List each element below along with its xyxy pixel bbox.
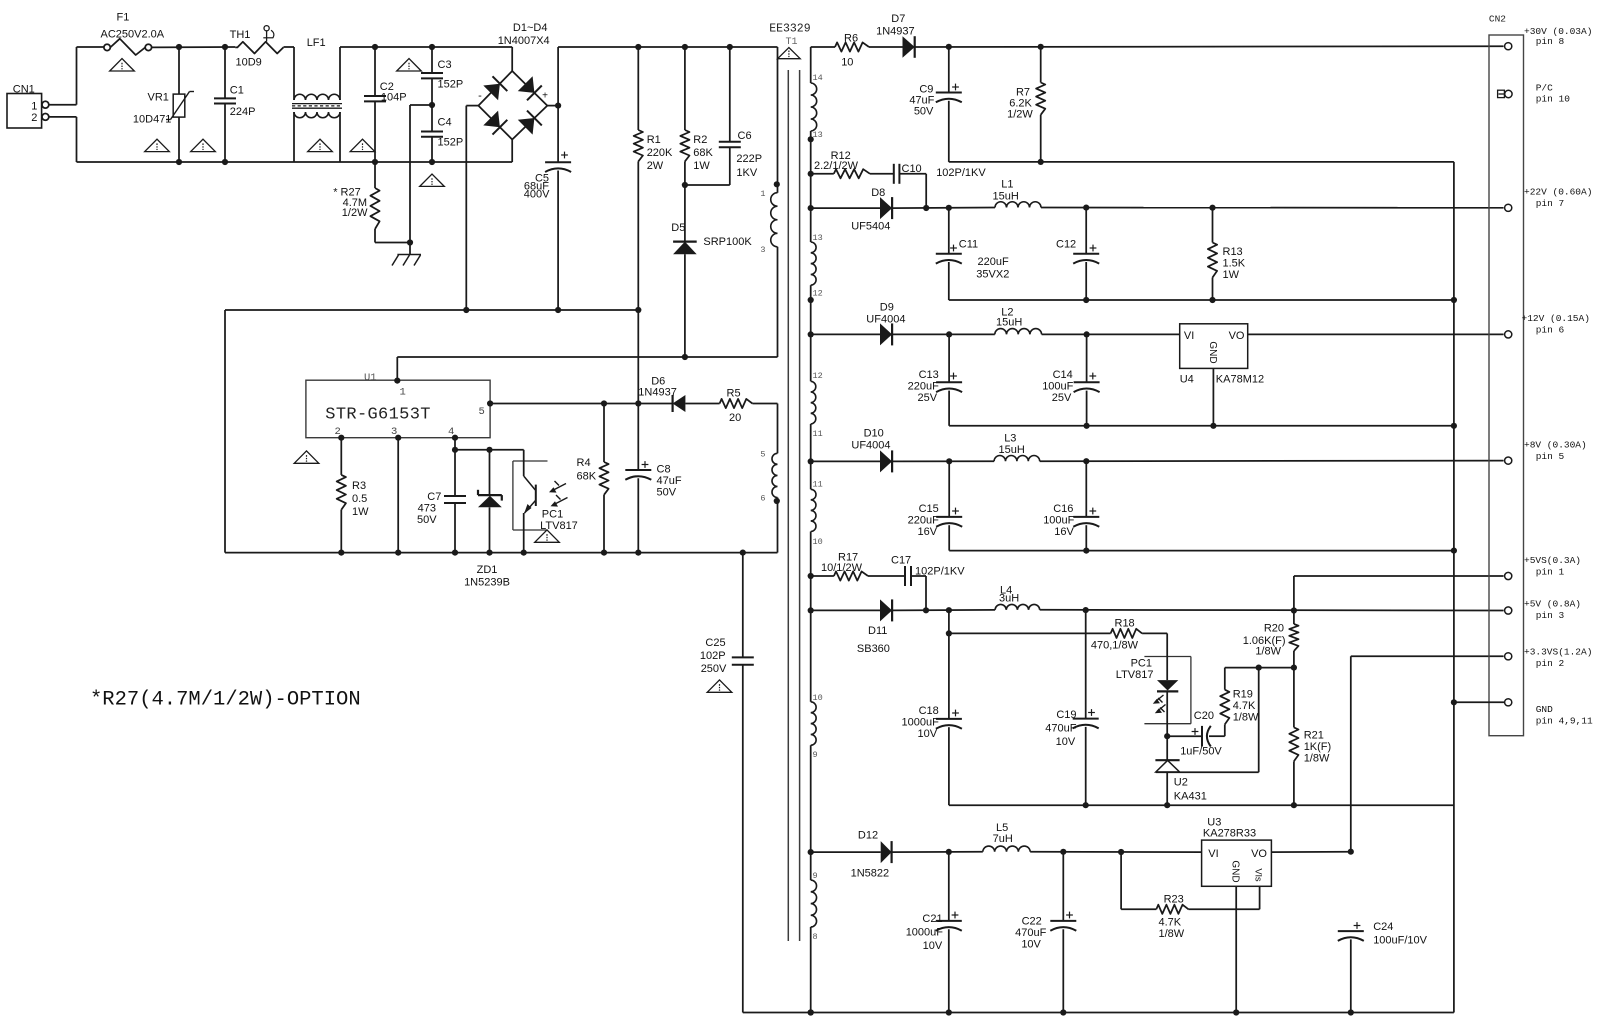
resistor R20: [1243, 611, 1299, 668]
svg-text:+8V (0.30A): +8V (0.30A): [1524, 440, 1587, 451]
svg-text:220uF: 220uF: [908, 515, 939, 527]
svg-text:STR-G6153T: STR-G6153T: [325, 406, 431, 425]
warning triangle below F1: [110, 59, 135, 71]
svg-text:6: 6: [760, 494, 765, 504]
svg-text:CN1: CN1: [13, 83, 35, 95]
inductor L4: [995, 585, 1504, 611]
svg-text:1.5K: 1.5K: [1223, 258, 1246, 270]
wire AC bottom rail: [77, 161, 513, 163]
node U1 pin3: [395, 435, 401, 441]
svg-text:TH1: TH1: [230, 29, 251, 41]
resistor R1: [634, 47, 673, 404]
thermistor TH1: [230, 26, 284, 69]
capacitor C7: [417, 450, 466, 553]
svg-text:R7: R7: [1016, 86, 1030, 98]
svg-text:pin 3: pin 3: [1536, 610, 1565, 621]
capacitor C18: [901, 610, 961, 805]
node C19 bottom: [1083, 802, 1089, 808]
wire pin14 to R6: [811, 46, 835, 48]
capacitor C3: [421, 47, 463, 105]
svg-text:1/2W: 1/2W: [342, 207, 368, 219]
svg-text:10V: 10V: [1056, 736, 1076, 748]
node C10 D8 junction: [923, 205, 929, 211]
resistor R27 optional: [333, 162, 410, 243]
node C1 bottom: [222, 159, 228, 165]
svg-text:C20: C20: [1194, 710, 1214, 722]
diode D5: [671, 185, 752, 357]
warning triangle left of C3: [397, 59, 422, 71]
CN2 pin 7 +22V: [1505, 187, 1593, 212]
inductor L2: [995, 307, 1180, 335]
wire U1 pin5 row: [490, 403, 672, 405]
svg-text:4.7K: 4.7K: [1159, 917, 1182, 929]
node T1 pin1: [774, 181, 780, 187]
inductor L1: [993, 179, 1504, 208]
resistor R13: [1208, 208, 1246, 300]
svg-text:AC250V2.0A: AC250V2.0A: [101, 29, 165, 41]
capacitor C16: [1043, 461, 1099, 550]
svg-text:3uH: 3uH: [999, 593, 1019, 605]
node T1 pin13: [808, 136, 814, 142]
diode D10: [811, 428, 994, 473]
resistor R7: [1007, 47, 1045, 162]
svg-text:1N4007X4: 1N4007X4: [498, 35, 550, 47]
node C17 D11 junction: [923, 607, 929, 613]
svg-text:T1: T1: [786, 37, 798, 48]
node R3 bottom: [338, 550, 344, 556]
svg-text:102P/1KV: 102P/1KV: [936, 167, 986, 179]
svg-text:PC1: PC1: [542, 509, 563, 521]
node bus +22V gnd: [1451, 297, 1457, 303]
svg-text:1N5239B: 1N5239B: [464, 577, 510, 589]
svg-text:1W: 1W: [352, 506, 369, 518]
wire CN1 pin2 to AC bottom rail: [49, 117, 77, 162]
svg-text:C18: C18: [919, 705, 939, 717]
node C8 bottom: [635, 550, 641, 556]
wire +3.3VS sense from U3 output: [1351, 656, 1504, 851]
svg-text:VI: VI: [1184, 330, 1194, 342]
svg-text:2.2/1/2W: 2.2/1/2W: [814, 160, 859, 172]
node C13 top: [946, 331, 952, 337]
svg-text:C16: C16: [1053, 503, 1073, 515]
CN2 pin 6 +12V: [1505, 313, 1590, 338]
wire REF down to U2: [1156, 668, 1259, 773]
line filter LF1: [292, 37, 342, 162]
diode D9: [811, 302, 995, 346]
node R20 top: [1291, 607, 1297, 613]
capacitor C5: [524, 106, 571, 310]
wire U1 pin4 down: [454, 438, 456, 450]
varistor VR1: [133, 47, 194, 162]
svg-text:C15: C15: [919, 503, 939, 515]
svg-text:KA431: KA431: [1174, 791, 1207, 803]
svg-text:47uF: 47uF: [657, 475, 682, 487]
svg-text:C3: C3: [438, 59, 452, 71]
capacitor C14: [1042, 334, 1099, 425]
svg-text:C17: C17: [891, 555, 911, 567]
resistor R17: [811, 552, 905, 581]
svg-text:C13: C13: [919, 369, 939, 381]
wire bridge negative: [466, 106, 478, 310]
node C19 top: [1083, 607, 1089, 613]
node C21 bottom: [946, 1009, 952, 1015]
wire +8V ground rail: [949, 550, 1454, 552]
node C4 bottom: [429, 159, 435, 165]
svg-text:VO: VO: [1251, 848, 1267, 860]
capacitor C25: [700, 553, 754, 1013]
wire +5VS sense: [1294, 576, 1504, 611]
wire +12V ground rail: [949, 425, 1454, 427]
svg-text:R23: R23: [1164, 894, 1184, 906]
svg-text:1: 1: [400, 387, 406, 399]
svg-text:50V: 50V: [914, 106, 934, 118]
CN2 pin 5 +8V: [1505, 440, 1587, 465]
svg-text:16V: 16V: [1054, 526, 1074, 538]
svg-text:10/1/2W: 10/1/2W: [821, 562, 863, 574]
svg-text:C24: C24: [1373, 921, 1393, 933]
wire C3C4 midpoint to chassis ground: [410, 105, 432, 243]
svg-text:5: 5: [479, 406, 485, 418]
warning triangle T1: [778, 48, 801, 59]
svg-text:R6: R6: [844, 33, 858, 45]
svg-text:12: 12: [813, 371, 823, 381]
node C5 bottom on rail: [555, 307, 561, 313]
node bus +12V gnd: [1451, 423, 1457, 429]
node U2 anode gnd: [1164, 802, 1170, 808]
wire bridge positive to DC rail: [547, 47, 777, 106]
wire U1 pin3 to control ground: [397, 438, 399, 553]
node C6 top: [727, 44, 733, 50]
svg-text:35VX2: 35VX2: [976, 269, 1009, 281]
svg-text:pin 1: pin 1: [1536, 567, 1565, 578]
node PC1 cathode C20 junction: [1164, 733, 1170, 739]
capacitor C10: [894, 163, 987, 208]
svg-text:104P: 104P: [381, 91, 407, 103]
transformer aux winding pins 5-6: [760, 450, 777, 504]
node R21 bottom: [1291, 802, 1297, 808]
node R20 bottom: [1291, 665, 1297, 671]
svg-text:8: 8: [813, 932, 818, 942]
warning triangle below PC1: [535, 530, 560, 542]
svg-text:R3: R3: [352, 480, 366, 492]
svg-text:C7: C7: [427, 491, 441, 503]
svg-text:15uH: 15uH: [999, 444, 1025, 456]
svg-text:1N5822: 1N5822: [851, 868, 890, 880]
node T1 pin8 on rail: [808, 1009, 814, 1015]
resistor R12: [811, 150, 894, 178]
transformer secondary winding pins 10-9: [811, 693, 823, 880]
warning triangle below C2 left: [350, 139, 375, 151]
resistor R6: [835, 33, 903, 69]
svg-text:11: 11: [813, 480, 823, 490]
wire pin4 node to ZD1 and PC1: [455, 449, 524, 451]
bridge rectifier D1-D4: [478, 22, 550, 162]
CN2 pin 3 +5V: [1505, 599, 1581, 622]
svg-text:D7: D7: [891, 13, 905, 25]
node R17 tap: [808, 573, 814, 579]
node C7 bottom: [452, 550, 458, 556]
svg-text:10V: 10V: [1021, 939, 1041, 951]
diode D7: [876, 13, 1504, 58]
node U1 pin5: [487, 400, 493, 406]
transformer secondary winding pins 14-13: [811, 47, 823, 140]
node pin3 ground: [395, 550, 401, 556]
warning triangle below VR1: [145, 139, 170, 151]
svg-text:1W: 1W: [693, 160, 710, 172]
regulator U3 KA278R33: [1202, 816, 1351, 1012]
svg-text:1K(F): 1K(F): [1304, 741, 1332, 753]
svg-text:473: 473: [418, 503, 436, 515]
node bus +8V gnd: [1451, 548, 1457, 554]
CN2 pin 1 +5VS: [1505, 555, 1581, 580]
resistor R19: [1220, 668, 1294, 737]
wire R7 C9 ground row to bus: [949, 162, 1454, 1013]
node R1 top: [635, 44, 641, 50]
svg-text:220K: 220K: [647, 147, 673, 159]
wire pin12 node down: [810, 300, 812, 381]
node bridge negative on rail: [463, 307, 469, 313]
svg-text:10V: 10V: [923, 940, 943, 952]
warning triangle below C1 left: [191, 139, 216, 151]
node VR1 bottom: [176, 159, 182, 165]
wire primary negative rail: [225, 310, 638, 553]
node R2 top: [682, 44, 688, 50]
svg-text:1KV: 1KV: [736, 167, 757, 179]
node R1 bottom on rail: [635, 307, 641, 313]
svg-text:16V: 16V: [918, 526, 938, 538]
node R4 top: [601, 400, 607, 406]
svg-text:15uH: 15uH: [996, 317, 1022, 329]
svg-text:470uF: 470uF: [1015, 927, 1046, 939]
node C14 top: [1084, 331, 1090, 337]
svg-text:50V: 50V: [417, 514, 437, 526]
svg-text:ZD1: ZD1: [477, 564, 498, 576]
svg-text:15uH: 15uH: [993, 191, 1019, 203]
svg-text:R18: R18: [1115, 618, 1135, 630]
svg-text:VI: VI: [1208, 848, 1218, 860]
svg-text:7uH: 7uH: [993, 833, 1013, 845]
svg-text:LTV817: LTV817: [1116, 669, 1154, 681]
svg-text:2W: 2W: [647, 160, 664, 172]
svg-text:R21: R21: [1304, 730, 1324, 742]
node C24 bottom: [1348, 1009, 1354, 1015]
inductor L5: [983, 822, 1202, 852]
svg-text:102P: 102P: [700, 650, 726, 662]
svg-text:10D9: 10D9: [236, 57, 262, 69]
svg-text:10D471: 10D471: [133, 114, 172, 126]
node C12 bottom: [1083, 297, 1089, 303]
capacitor C8: [625, 404, 682, 553]
node C16 top: [1083, 458, 1089, 464]
svg-text:1: 1: [760, 189, 765, 199]
svg-text:PC1: PC1: [1131, 658, 1152, 670]
svg-text:VO: VO: [1229, 330, 1245, 342]
svg-text:224P: 224P: [230, 106, 256, 118]
node D12 tap: [808, 849, 814, 855]
svg-text:1/2W: 1/2W: [1007, 109, 1033, 121]
node U1 pin4: [452, 435, 458, 441]
svg-text:220uF: 220uF: [908, 381, 939, 393]
svg-text:C19: C19: [1056, 709, 1076, 721]
svg-text:EE3329: EE3329: [769, 23, 811, 36]
svg-text:D8: D8: [871, 187, 885, 199]
node R13 bottom: [1209, 297, 1215, 303]
svg-text:pin 5: pin 5: [1536, 451, 1565, 462]
node R4 bottom: [601, 550, 607, 556]
node pin4 branch: [452, 447, 458, 453]
node R7 top: [1038, 44, 1044, 50]
svg-text:CN2: CN2: [1489, 13, 1506, 24]
node D10 tap: [808, 458, 814, 464]
svg-text:100uF: 100uF: [1043, 515, 1074, 527]
node D8 tap: [808, 205, 814, 211]
capacitor C4: [421, 105, 463, 162]
node D9 tap: [808, 331, 814, 337]
transformer secondary winding pins 11-10: [811, 480, 823, 702]
svg-text:C25: C25: [705, 637, 725, 649]
node C1 top: [222, 44, 228, 50]
IC U1 STR-G6153T: [306, 372, 490, 438]
node C22 bottom: [1060, 1009, 1066, 1015]
diode D6: [638, 376, 719, 413]
svg-text:2: 2: [31, 112, 37, 124]
wire AC top rail TH1 to LF1: [284, 46, 294, 48]
svg-text:50V: 50V: [657, 487, 677, 499]
svg-text:4.7K: 4.7K: [1233, 700, 1256, 712]
zener diode ZD1: [464, 450, 510, 589]
svg-text:5: 5: [760, 450, 765, 460]
transformer secondary winding pins 12-11: [811, 371, 823, 489]
node C22 top: [1060, 849, 1066, 855]
svg-text:U2: U2: [1174, 777, 1188, 789]
CN2 pin 8 +30V: [1505, 26, 1593, 50]
svg-text:C1: C1: [230, 84, 244, 96]
wire pin13 node down: [810, 139, 812, 242]
node C8 R1 junction: [635, 400, 641, 406]
node C15 top: [946, 458, 952, 464]
node R2 C6 junction: [682, 182, 688, 188]
wire bottom ground rail: [743, 1012, 1454, 1014]
svg-text:pin 10: pin 10: [1536, 94, 1571, 105]
svg-text:68K: 68K: [577, 471, 597, 483]
svg-text:1W: 1W: [1223, 269, 1240, 281]
svg-text:VR1: VR1: [148, 91, 169, 103]
transformer T1 EE3329 core: [769, 23, 811, 942]
svg-text:100uF: 100uF: [1042, 381, 1073, 393]
capacitor C9: [909, 47, 961, 162]
node C3 C4 junction: [429, 102, 435, 108]
svg-text:R5: R5: [727, 388, 741, 400]
svg-text:68K: 68K: [693, 147, 713, 159]
resistor R21: [1289, 668, 1331, 806]
diode D11: [811, 599, 995, 655]
node ZD1 top: [486, 447, 492, 453]
node U4 gnd: [1210, 423, 1216, 429]
svg-text:1000uF: 1000uF: [906, 927, 944, 939]
svg-text:Vls: Vls: [1252, 868, 1263, 881]
svg-text:R4: R4: [577, 457, 591, 469]
node D5 anode on startup net: [682, 354, 688, 360]
svg-text:1/8W: 1/8W: [1233, 712, 1259, 724]
node C2 bottom: [372, 159, 378, 165]
wire AC top rail left segment: [77, 46, 104, 48]
node U1 pin2: [338, 435, 344, 441]
svg-text:14: 14: [813, 73, 823, 83]
wire AC top rail F1 to TH1: [152, 46, 236, 48]
node R7 bottom: [1038, 159, 1044, 165]
capacitor C21: [906, 852, 962, 1013]
svg-text:250V: 250V: [701, 663, 727, 675]
svg-text:1000uF: 1000uF: [901, 717, 939, 729]
svg-text:R19: R19: [1233, 689, 1253, 701]
diode D8: [811, 187, 995, 233]
capacitor C13: [908, 334, 963, 425]
wire startup net U1 pin1 to D5 and primary pin3: [397, 247, 777, 381]
svg-text:10: 10: [813, 537, 823, 547]
capacitor C2: [364, 47, 407, 162]
warning triangle below C25: [707, 680, 732, 692]
svg-text:20: 20: [729, 412, 741, 424]
svg-text:R1: R1: [647, 134, 661, 146]
transformer secondary winding pins 13-12: [811, 233, 823, 300]
svg-text:10: 10: [813, 693, 823, 703]
capacitor C22: [1015, 852, 1076, 1013]
svg-text:470uF: 470uF: [1045, 723, 1076, 735]
svg-text:400V: 400V: [524, 189, 550, 201]
svg-text:13: 13: [813, 130, 823, 140]
chassis ground symbol: [392, 243, 421, 266]
resistor R5: [720, 388, 778, 454]
svg-text:pin 4,9,11: pin 4,9,11: [1536, 716, 1593, 727]
svg-text:152P: 152P: [438, 137, 464, 149]
node PC1 emitter ground: [521, 550, 527, 556]
capacitor C6: [685, 47, 762, 185]
svg-text:D5: D5: [671, 222, 685, 234]
node VR1 top: [176, 44, 182, 50]
svg-text:13: 13: [813, 233, 823, 243]
svg-text:25V: 25V: [1052, 392, 1072, 404]
svg-text:C12: C12: [1056, 239, 1076, 251]
svg-text:10V: 10V: [918, 728, 938, 740]
svg-text:100uF/10V: 100uF/10V: [1373, 935, 1427, 947]
node C2 top: [372, 44, 378, 50]
svg-text:10: 10: [841, 57, 853, 69]
svg-text:+: +: [542, 91, 548, 102]
node U3 output C24: [1348, 849, 1354, 855]
node bridge positive C5: [555, 103, 561, 109]
svg-text:pin 2: pin 2: [1536, 658, 1565, 669]
svg-text:SB360: SB360: [857, 643, 890, 655]
svg-text:C8: C8: [657, 464, 671, 476]
svg-text:U4: U4: [1180, 373, 1194, 385]
svg-text:1/8W: 1/8W: [1304, 753, 1330, 765]
svg-text:pin 8: pin 8: [1536, 36, 1565, 47]
capacitor C24: [1338, 921, 1428, 1013]
svg-text:LF1: LF1: [307, 37, 326, 49]
node C21 top: [946, 849, 952, 855]
node T1 pin6: [774, 498, 780, 504]
connector CN1: [7, 83, 49, 128]
node chassis ground junction: [407, 239, 413, 245]
svg-text:D11: D11: [868, 625, 887, 637]
shunt regulator U2 KA431: [1155, 736, 1206, 805]
svg-text:1N4937: 1N4937: [876, 25, 915, 37]
node C3 top: [429, 44, 435, 50]
svg-text:C21: C21: [922, 913, 942, 925]
svg-text:C10: C10: [902, 163, 922, 175]
svg-text:R20: R20: [1264, 623, 1284, 635]
svg-text:12: 12: [813, 289, 823, 299]
